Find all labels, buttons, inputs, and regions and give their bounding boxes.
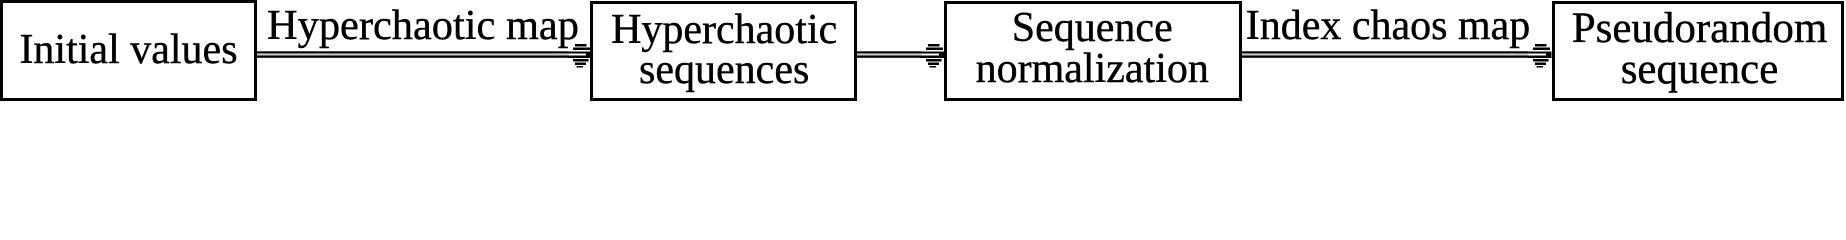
wire: double-line shaft, arrow 3 (Sequence normalization -> Pseudorandom sequence): [1242, 51, 1528, 58]
arrowhead of arrow 3 (striped triangle): [1528, 44, 1552, 68]
label text: Initial values: [0, 29, 257, 71]
wire: double-line shaft, arrow 1 (Initial values -> Hyperchaotic sequences): [257, 51, 569, 58]
label text: Hyperchaotic map (on arrow 1): [223, 5, 623, 47]
label text: Pseudorandom sequence: [1554, 8, 1846, 90]
label text: Index chaos map (on arrow 3): [1188, 5, 1588, 47]
box: Sequence normalization: [944, 1, 1242, 101]
box: Initial values: [0, 0, 257, 101]
wire: double-line shaft, arrow 2 (Hyperchaotic sequences -> Sequence normalization): [857, 51, 922, 58]
box: Pseudorandom sequence: [1552, 1, 1844, 101]
label text: Hyperchaotic sequences: [591, 10, 858, 90]
label text: Sequence normalization: [943, 8, 1241, 90]
arrowhead of arrow 1 (striped triangle): [568, 44, 592, 68]
box: Hyperchaotic sequences: [590, 1, 857, 101]
arrowhead of arrow 2 (striped triangle): [921, 44, 945, 68]
